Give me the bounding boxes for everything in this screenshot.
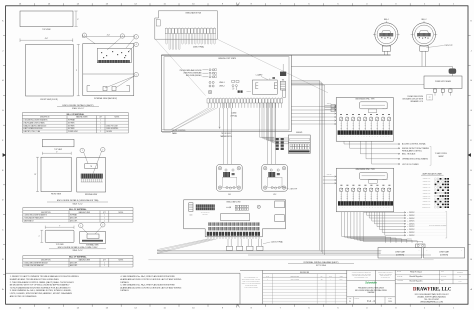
svg-text:4'-0": 4'-0" bbox=[45, 38, 49, 40]
svg-text:+ 24VDC: + 24VDC bbox=[407, 218, 415, 220]
svg-text:+ 24VDC: + 24VDC bbox=[407, 229, 415, 231]
svg-text:Ronald Mapplins: Ronald Mapplins bbox=[409, 276, 422, 278]
svg-text:Schneider: Schneider bbox=[365, 282, 378, 285]
svg-text:LINE-2: LINE-2 bbox=[219, 86, 225, 88]
svg-text:BELL TROUBLE: BELL TROUBLE bbox=[402, 153, 416, 155]
svg-text:Phillip R. Bryan: Phillip R. Bryan bbox=[410, 272, 422, 274]
svg-text:TOP VIEW: TOP VIEW bbox=[42, 29, 51, 31]
svg-text:+ 24VDC: + 24VDC bbox=[407, 212, 415, 214]
svg-text:LINE-1: LINE-1 bbox=[219, 82, 225, 84]
svg-text:+ 24VDC: + 24VDC bbox=[407, 223, 415, 225]
svg-text:+ 24VDC: + 24VDC bbox=[407, 215, 415, 217]
svg-text:LIST OF 16 POWER: LIST OF 16 POWER bbox=[402, 164, 419, 166]
svg-text:J: J bbox=[471, 50, 472, 52]
svg-text:+ 24VDC: + 24VDC bbox=[407, 221, 415, 223]
svg-text:DRAWFIRE, LLC: DRAWFIRE, LLC bbox=[413, 288, 452, 293]
svg-text:TEL: 910.371.0267: TEL: 910.371.0267 bbox=[424, 299, 439, 301]
svg-text:+ 24VDC: + 24VDC bbox=[407, 235, 415, 237]
svg-text:J: J bbox=[2, 50, 3, 52]
svg-text:+ 24VDC: + 24VDC bbox=[407, 226, 415, 228]
svg-text:FRONT VIEW (DOOR): FRONT VIEW (DOOR) bbox=[40, 99, 58, 101]
svg-text:Ronald Mapplins: Ronald Mapplins bbox=[409, 281, 422, 283]
svg-text:+ 24VDC: + 24VDC bbox=[407, 232, 415, 234]
